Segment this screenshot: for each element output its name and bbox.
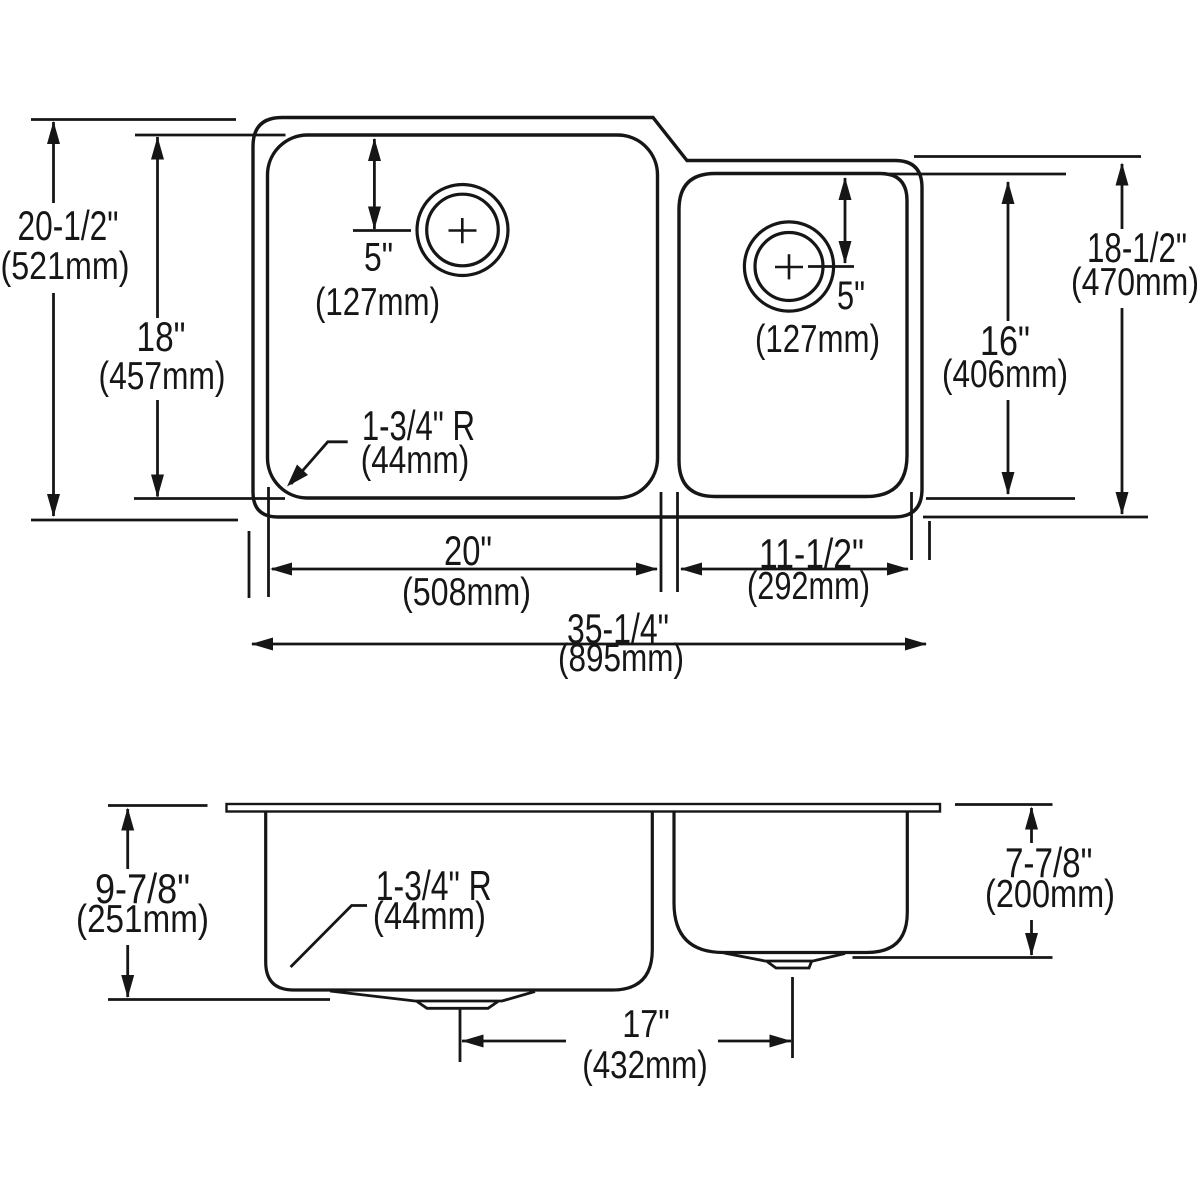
svg-text:(432mm): (432mm) xyxy=(582,1044,708,1087)
dimension line 20-1/2 vertical xyxy=(52,122,55,516)
dimension line 20 horizontal xyxy=(272,568,657,571)
dimension line 7-7/8 vertical xyxy=(1030,808,1033,955)
arrowhead 18-1/2 down xyxy=(1116,492,1129,515)
extension line 5in small bowl xyxy=(808,265,854,268)
arrowhead 20-1/2 down xyxy=(47,494,60,517)
arrowhead 18 down xyxy=(151,475,164,498)
arrowhead radius leader top view xyxy=(287,465,308,487)
arrowhead 35-1/4 left xyxy=(251,638,273,651)
svg-text:(457mm): (457mm) xyxy=(99,355,226,398)
top view: small bowl drain outer circle xyxy=(744,222,833,311)
arrowhead 11-1/2 right xyxy=(887,563,909,576)
dimension line 5in large bowl vertical xyxy=(373,139,376,229)
svg-text:5": 5" xyxy=(364,236,393,280)
extension tick 35-1/4 dim right xyxy=(928,521,931,560)
dimension line 18 vertical xyxy=(156,137,159,497)
arrowhead 18-1/2 up xyxy=(1116,163,1129,186)
svg-text:(251mm): (251mm) xyxy=(76,898,209,941)
svg-text:(508mm): (508mm) xyxy=(402,571,531,614)
dimension texts xyxy=(1,202,1200,1087)
arrowhead 5in large up xyxy=(368,138,381,161)
dimension line 17 horizontal xyxy=(462,1040,791,1043)
arrowhead 7-7/8 up xyxy=(1025,807,1038,830)
leader line radius callout top view xyxy=(291,442,348,484)
extension tick 35-1/4 dim left xyxy=(248,531,251,598)
bottom extension line for 18-1/2 dim xyxy=(923,516,1148,519)
extension line 7-7/8 bottom xyxy=(853,956,1053,959)
arrowhead 16 down xyxy=(1002,472,1015,495)
extension tick 11-1/2 dim right xyxy=(910,492,913,560)
arrowhead 35-1/4 right xyxy=(905,638,927,651)
arrowhead 5in large down xyxy=(368,207,381,230)
extension line 9-7/8 bottom xyxy=(108,998,330,1001)
svg-text:(292mm): (292mm) xyxy=(747,565,870,608)
side view: small bowl profile xyxy=(674,812,907,953)
extension tick between bowls left xyxy=(660,492,663,592)
svg-text:(406mm): (406mm) xyxy=(942,353,1068,396)
svg-text:(127mm): (127mm) xyxy=(315,281,440,324)
white halos under dimension text xyxy=(12,203,1192,1091)
svg-text:20": 20" xyxy=(444,527,492,574)
svg-text:20-1/2": 20-1/2" xyxy=(18,202,119,249)
side view: small bowl drain dish xyxy=(724,953,845,961)
extension line 9-7/8 top xyxy=(108,804,208,807)
svg-text:(521mm): (521mm) xyxy=(1,245,130,288)
side view: large bowl drain dish xyxy=(330,991,535,1001)
side view: small bowl drain trapezoid xyxy=(767,962,812,969)
bottom extension line for 18 dim xyxy=(134,497,285,500)
svg-text:5": 5" xyxy=(837,274,865,318)
extension line for 16 dim xyxy=(884,173,1066,176)
arrowhead 16 up xyxy=(1002,181,1015,204)
svg-text:(470mm): (470mm) xyxy=(1071,261,1199,304)
extension line 5in large bowl xyxy=(353,229,411,232)
top view: small bowl inner outline xyxy=(679,174,907,497)
svg-text:(895mm): (895mm) xyxy=(558,637,684,680)
dimension line 11-1/2 horizontal xyxy=(681,568,908,571)
svg-text:(127mm): (127mm) xyxy=(755,318,880,361)
side view: countertop bar xyxy=(227,804,941,812)
arrowhead 9-7/8 down xyxy=(121,975,134,998)
extension line small drain center xyxy=(791,977,794,1058)
extension line top-right for 18-1/2 dim xyxy=(914,155,1141,158)
arrowhead 20 right xyxy=(636,563,658,576)
dimension line 9-7/8 vertical xyxy=(126,809,129,997)
svg-text:18": 18" xyxy=(137,313,186,360)
arrowhead 9-7/8 up xyxy=(121,808,134,831)
extension line top-left for 20-1/2 dim xyxy=(31,118,236,121)
top view: small bowl drain cross xyxy=(775,254,803,279)
arrowhead 20-1/2 up xyxy=(47,121,60,144)
svg-text:(200mm): (200mm) xyxy=(985,873,1115,916)
side view: large bowl drain trapezoid xyxy=(417,1002,498,1009)
svg-text:17": 17" xyxy=(622,1003,670,1046)
top view: small bowl drain inner circle xyxy=(755,233,823,301)
bottom extension line for 20-1/2 dim xyxy=(31,519,238,522)
bottom extension line for 16 dim xyxy=(926,497,1075,500)
side view: large bowl profile xyxy=(266,812,653,991)
dimension line 5in small bowl vertical xyxy=(844,178,847,263)
dimension line 18-1/2 vertical xyxy=(1121,164,1124,514)
arrowhead 20 left xyxy=(270,563,292,576)
arrowhead 5in small up xyxy=(839,177,852,200)
top view: large bowl inner outline xyxy=(268,135,658,498)
top view: large bowl drain inner circle xyxy=(427,194,499,266)
dimension line 16 vertical xyxy=(1007,182,1010,494)
arrowhead 7-7/8 down xyxy=(1025,933,1038,956)
svg-text:(44mm): (44mm) xyxy=(361,439,470,482)
arrowhead 11-1/2 left xyxy=(680,563,702,576)
extension line 7-7/8 top xyxy=(955,803,1053,806)
top view: large bowl drain cross xyxy=(449,218,477,243)
top view: large bowl drain outer circle xyxy=(417,185,508,276)
arrowhead 5in small down xyxy=(839,241,852,264)
extension line large drain center xyxy=(459,1008,462,1062)
leader line radius callout side view xyxy=(291,906,367,968)
arrowhead 17 right xyxy=(770,1035,792,1048)
extension tick between bowls right xyxy=(676,492,679,592)
svg-text:(44mm): (44mm) xyxy=(373,895,486,938)
top view: outer sink rim outline xyxy=(253,118,922,518)
arrowhead 18 up xyxy=(151,137,164,160)
dimension line 35-1/4 horizontal xyxy=(252,643,926,646)
extension tick 20 dim left xyxy=(267,487,270,597)
extension line for 18 dim xyxy=(135,134,286,137)
arrowhead 17 left xyxy=(462,1035,484,1048)
